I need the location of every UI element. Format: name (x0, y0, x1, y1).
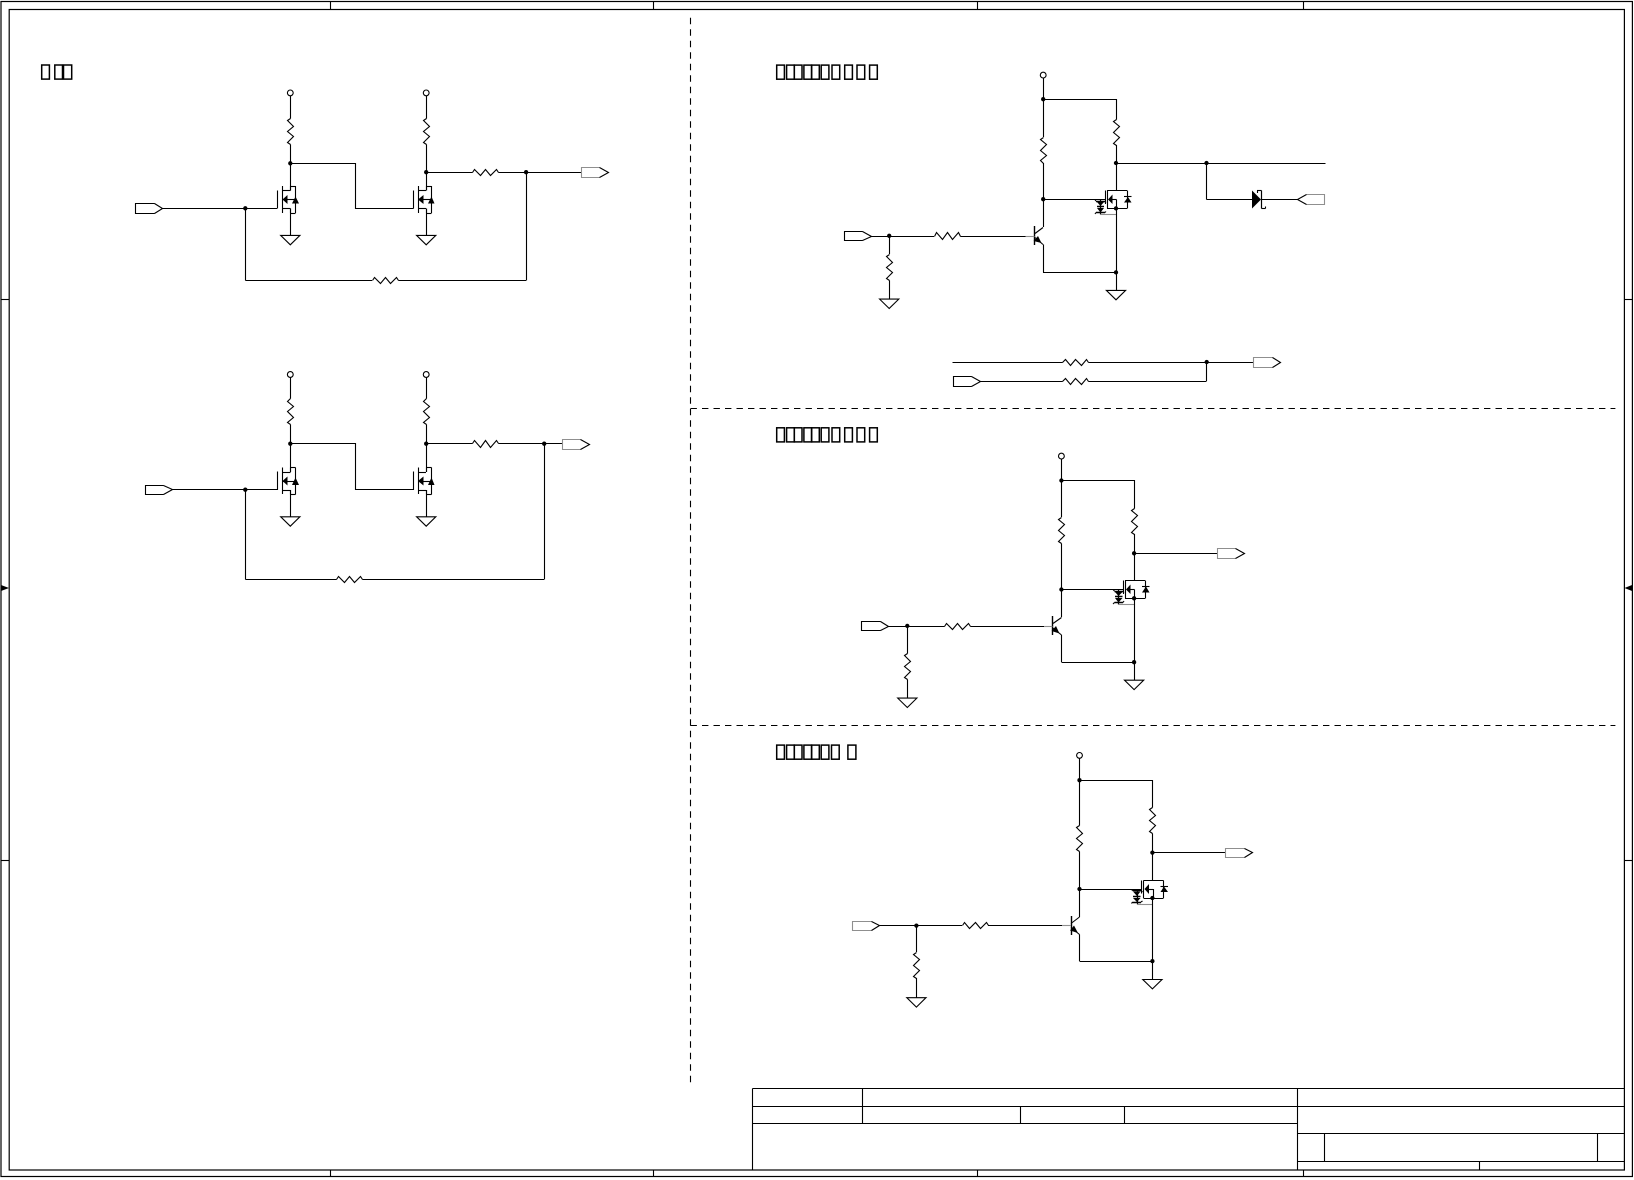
frame tick bottom 2 (653, 1170, 655, 1177)
c2 supply terminal V1 (287, 372, 293, 378)
wire c2 M2 source (426, 490, 428, 517)
dashed divider horizontal 1 (691, 408, 1616, 410)
wire c2 feedback bottom right (363, 579, 545, 581)
wire c1 feedback bottom right (399, 280, 527, 282)
title block v-divider e (1597, 1133, 1599, 1161)
node s3 source-gnd (1150, 959, 1154, 963)
frame tick left 1 (1, 299, 9, 301)
frame tick left 2 (1, 860, 9, 862)
resistor c1 R3 (output series) (473, 170, 499, 176)
frame tick top 2 (653, 2, 655, 10)
resistor c2 R2 (pull-up M2) (424, 399, 430, 425)
wire s3 emitter to source (1080, 961, 1153, 963)
port c1 output (582, 168, 600, 178)
title block h-line row2 left (753, 1123, 1298, 1125)
wire s3 Q1 emitter down (1079, 935, 1081, 962)
port c1 input (136, 204, 155, 214)
resistor s3 Rin (base series) (963, 923, 989, 929)
node s1 A (1041, 97, 1045, 101)
resistor s1 Rpd (pulldown) (887, 255, 893, 281)
header text left circuit (tofu) (42, 65, 50, 79)
frame tick top 4 (1303, 2, 1305, 10)
resistor s2 Rpd (pulldown) (905, 654, 911, 680)
ground s3 pulldown (907, 998, 926, 1007)
wire s1 top jog (1044, 100, 1117, 120)
wire c1 R1 to M1 drain (290, 145, 292, 191)
node c2 A1 (M1 drain) (288, 442, 292, 446)
frame center arrow right (1625, 585, 1633, 591)
resistor c2 R3 (output series) (473, 441, 499, 448)
resistor s1 Rs2 (sense lower) (1063, 379, 1089, 385)
title block h-line row1 (753, 1106, 1625, 1108)
wire s1 input to Rin (871, 236, 934, 238)
wire s2 output line (1134, 553, 1217, 555)
resistor c1 R1 (pull-up M1) (288, 119, 294, 145)
wire s1 pulldown upper (889, 236, 891, 254)
ground s2 main (1125, 680, 1144, 689)
node s1 input junction (887, 234, 891, 238)
ground s1 main (1106, 290, 1125, 299)
port s1 sense output (1254, 358, 1273, 368)
wire s1 pulldown lower (889, 281, 891, 300)
wire s2 emitter to source (1062, 662, 1135, 664)
wire c2 R3 to output port (499, 443, 563, 445)
frame tick bottom 4 (1303, 1170, 1305, 1177)
c1 supply terminal V2 (423, 90, 429, 96)
wire s2 pulldown lower (907, 680, 909, 699)
frame tick top 1 (330, 2, 332, 10)
node s1 gate (1041, 197, 1045, 201)
wire s1 to ground (1116, 273, 1118, 291)
port s2 input (862, 622, 881, 631)
resistor s1 Rs1 (sense upper) (1063, 360, 1089, 366)
wire s1 diode branch down (1206, 163, 1208, 200)
port s1 input (845, 232, 863, 241)
frame center arrow left (1, 585, 9, 591)
wire c2 feedback up (544, 444, 546, 580)
wire s2 pulldown upper (907, 626, 909, 654)
wire c2 feedback bottom left (246, 579, 337, 581)
dashed divider vertical (690, 18, 692, 1084)
wire c2 M2 drain to R3 (426, 443, 473, 445)
wire s2 left branch upper (1061, 481, 1063, 518)
wire s3 M1 source (1152, 898, 1154, 961)
node s2 input junction (905, 624, 909, 628)
wire c1 R2 to M2 drain (426, 145, 428, 191)
wire s1 output line (1116, 163, 1326, 165)
wire c1 feedback bottom left (246, 280, 373, 282)
frame tick right 1 (1625, 299, 1633, 301)
node c1 A2 (M2 drain) (424, 170, 428, 174)
wire c1 stage1-to-stage2 jog (291, 164, 414, 209)
wire s1 left branch upper (1043, 99, 1045, 137)
wire c1 R3 to output port (499, 172, 582, 174)
wire s1 Rc to drain (1116, 145, 1118, 191)
transistor c2 M1 (NMOS) (277, 472, 279, 491)
wire c1 M2 source (426, 209, 428, 236)
wire s1 Q1 collector (1043, 227, 1045, 229)
s3 supply terminal (1077, 753, 1083, 759)
wire s2 Rin to base (971, 626, 1045, 628)
wire s2 input to Rin (889, 626, 945, 628)
wire c1 feedback down (245, 209, 247, 281)
wire s2 to ground (1134, 662, 1136, 680)
node c2 output (542, 442, 546, 446)
ground s2 pulldown (898, 698, 917, 707)
s2 supply terminal (1059, 453, 1065, 459)
wire s1 Rin to base (961, 236, 1026, 238)
wire c1 feedback up (526, 172, 528, 281)
ground c2 M1 (281, 517, 300, 526)
node c2 A2 (M2 drain) (424, 442, 428, 446)
wire s1 sense upper right (1089, 362, 1254, 364)
port c2 output (563, 440, 581, 450)
wire s3 left branch lower (1079, 852, 1081, 918)
resistor s2 Rc (collector) (1132, 509, 1138, 535)
wire s1 left branch lower (1043, 163, 1045, 227)
node c1 A1 (M1 drain) (288, 161, 292, 165)
wire c2 R2 to M2 drain (426, 425, 428, 473)
wire s1 emitter to source (1043, 272, 1116, 274)
resistor s1 Rin (base series) (935, 233, 961, 240)
wire s1 diode to port (1262, 199, 1298, 201)
wire c2 R1 to M1 drain (290, 425, 292, 473)
wire s1 M1 source (1116, 209, 1118, 273)
title block left box (752, 1089, 754, 1171)
header text section3 (tofu) (777, 745, 785, 759)
wire s1 sense lower left (980, 381, 1063, 383)
resistor s1 Rc (collector) (1114, 120, 1120, 146)
node c1 input junction (243, 206, 247, 210)
title block v-divider b (1020, 1107, 1022, 1124)
c2 supply terminal V2 (423, 372, 429, 378)
node s3 gate (1077, 887, 1081, 891)
wire s3 to ground (1152, 961, 1154, 980)
ground c1 M1 (281, 235, 300, 244)
node c1 output (524, 170, 528, 174)
wire s2 supply to nodeA (1061, 459, 1063, 481)
node s3 output (1150, 850, 1154, 854)
wire s2 top jog (1062, 481, 1135, 509)
node s1 output branch (1204, 161, 1208, 165)
wire s3 pulldown lower (916, 978, 918, 998)
wire s1 Q1 emitter down (1043, 245, 1045, 273)
wire c2 M1 source (290, 490, 292, 517)
wire s3 pulldown upper (916, 926, 918, 953)
wire c2 V1 to R1 (290, 378, 292, 399)
wire s1 diode branch left (1207, 199, 1253, 201)
wire s1 supply to nodeA (1043, 78, 1045, 99)
wire c1 V1 to R1 (290, 96, 292, 119)
title block h-line row4 right (1297, 1161, 1625, 1163)
s1 supply terminal (1040, 72, 1046, 78)
node s2 A (1059, 478, 1063, 482)
wire c1 M2 drain to R3 (426, 172, 473, 174)
ground c1 M2 (417, 235, 436, 244)
title block top line (753, 1088, 1625, 1090)
resistor c2 R4 (feedback) (337, 577, 363, 583)
dashed divider horizontal 2 (691, 725, 1616, 727)
header text section1 (tofu) (777, 65, 785, 79)
wire s3 Rc to drain (1152, 834, 1154, 881)
wire s1 sense upper (953, 362, 1063, 364)
node s3 input junction (914, 923, 918, 927)
wire c2 V2 to R2 (426, 378, 428, 399)
ground c2 M2 (417, 517, 436, 526)
node s2 output (1132, 551, 1136, 555)
wire s2 M1 source (1134, 599, 1136, 663)
transistor s2 M1 (power NMOS w/ protection) (1125, 580, 1145, 582)
resistor s3 Rb (gate bias) (1077, 826, 1083, 852)
port s1 sense input (954, 377, 972, 387)
title block h-line row3 right (1297, 1133, 1625, 1135)
frame tick bottom 1 (330, 1170, 332, 1177)
port s3 output (1226, 849, 1245, 858)
wire c1 M1 source (290, 209, 292, 236)
node s1 source-gnd (1114, 270, 1118, 274)
ground s1 pulldown (880, 299, 899, 308)
node s3 A (1077, 778, 1081, 782)
frame tick bottom 3 (977, 1170, 979, 1177)
wire s3 Rin to base (988, 925, 1062, 927)
wire s3 left branch upper (1079, 780, 1081, 826)
port c2 input (146, 486, 164, 495)
title block v-divider a (862, 1089, 864, 1124)
transistor s1 M1 (power NMOS w/ protection) (1107, 190, 1127, 192)
transistor c2 M2 (NMOS) (413, 472, 415, 491)
resistor s2 Rin (base series) (945, 624, 971, 630)
resistor s3 Rpd (pulldown) (914, 953, 920, 979)
wire c2 stage1-to-stage2 jog (291, 444, 414, 490)
resistor s3 Rc (collector) (1150, 808, 1156, 834)
node s2 source-gnd (1132, 660, 1136, 664)
frame tick top 3 (977, 2, 979, 10)
transistor s3 Q1 (NPN) (1071, 916, 1073, 935)
wire c2 feedback down (245, 490, 247, 580)
title block v-divider f (1479, 1161, 1481, 1170)
node s1 output (1114, 161, 1118, 165)
wire s1 gate lead (1043, 199, 1105, 201)
wire s3 top jog (1080, 781, 1153, 808)
wire s2 left branch lower (1061, 544, 1063, 618)
frame tick right 2 (1625, 860, 1633, 862)
resistor c1 R2 (pull-up M2) (424, 119, 430, 145)
wire s3 input to Rin (880, 925, 963, 927)
resistor s1 Rb (gate bias) (1041, 138, 1047, 164)
port s2 output (1218, 549, 1236, 559)
transistor c1 M1 (NMOS) (277, 191, 279, 209)
transistor s3 M1 (power NMOS w/ protection) (1144, 880, 1164, 882)
port s1 output (left-pointing) (1307, 195, 1325, 205)
title block v-divider c (1124, 1107, 1126, 1124)
wire s2 Rc to drain (1134, 534, 1136, 581)
wire c1 V2 to R2 (426, 96, 428, 119)
port s3 input (853, 922, 872, 931)
node s1 sense junction (1205, 360, 1209, 364)
title block v-divider d (1324, 1133, 1326, 1161)
wire s3 supply to nodeA (1079, 759, 1081, 781)
transistor c1 M2 (NMOS) (413, 191, 415, 209)
wire s3 output line (1153, 852, 1226, 854)
node s2 gate (1059, 587, 1063, 591)
wire s2 Q1 emitter down (1061, 635, 1063, 662)
resistor c2 R1 (pull-up M1) (288, 399, 294, 425)
wire c2 input to M1 gate (172, 489, 277, 491)
node c2 input junction (243, 488, 247, 492)
ground s3 main (1143, 980, 1162, 989)
resistor c1 R4 (feedback) (373, 278, 399, 284)
wire s2 gate lead (1062, 589, 1124, 591)
wire s1 sense vertical (1206, 362, 1208, 381)
transistor s2 Q1 (NPN) (1052, 616, 1054, 635)
diode s1 D1 (zener) (1252, 191, 1261, 209)
wire c1 input to M1 gate (163, 208, 278, 210)
transistor s1 Q1 (NPN) (1034, 226, 1036, 245)
c1 supply terminal V1 (287, 90, 293, 96)
wire s3 gate lead (1080, 889, 1142, 891)
resistor s2 Rb (gate bias) (1059, 518, 1065, 544)
header text section2 (tofu) (777, 428, 785, 442)
title block v-divider main (1297, 1089, 1299, 1171)
wire s1 sense lower right (1089, 381, 1207, 383)
